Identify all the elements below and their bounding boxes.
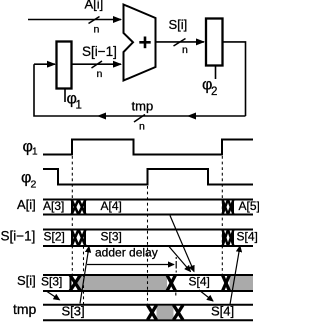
svg-text:n: n (182, 44, 188, 56)
crossing S[i] settles to S[4] (167, 275, 176, 291)
register REG1 (phi1 latch) (57, 42, 72, 89)
svg-text:S[i]: S[i] (169, 17, 188, 32)
wire A[i] input (28, 19, 121, 21)
svg-text:n: n (97, 68, 103, 80)
arrow S[3] to S[4] (169, 247, 191, 272)
bus slash tmp (134, 115, 145, 123)
dashed line at phi1 rise t1 (71, 156, 73, 274)
crossing S[3]-S[4] (223, 230, 234, 247)
svg-text:n: n (139, 121, 145, 133)
bus row S[i] rails and gray regions (43, 275, 253, 291)
wire clock stub phi2 (215, 66, 217, 80)
arrow A[4] to S[4] (170, 216, 194, 272)
crossing S[i] invalid after phi1 rise t2 (223, 275, 230, 291)
svg-text:tmp: tmp (132, 99, 154, 114)
svg-text:S[3]: S[3] (101, 230, 122, 244)
bus row S[i-1] rails (43, 230, 253, 247)
crossing tmp settles S[4] (174, 305, 184, 320)
wire clock stub phi1 (64, 89, 66, 103)
svg-text:n: n (94, 24, 100, 36)
svg-text:tmp: tmp (13, 301, 37, 317)
waveform phi2 (43, 169, 253, 185)
svg-text:S[3]: S[3] (41, 275, 62, 289)
bus row tmp rails and gray region (43, 305, 253, 321)
bus slash A[i] (89, 17, 100, 24)
dashed line at phi2 rise (147, 186, 149, 304)
svg-text:2: 2 (211, 86, 217, 98)
annotation adder delay measure arrow (87, 264, 174, 266)
svg-text:S[4]: S[4] (189, 275, 210, 289)
wire adder output S[i] (156, 41, 204, 43)
arrow tmp S[3] to S[i-1] (80, 247, 89, 304)
waveform phi1 (43, 140, 253, 155)
svg-text:adder delay: adder delay (95, 246, 158, 260)
svg-text:S[3]: S[3] (62, 304, 85, 319)
svg-text:A[i]: A[i] (17, 197, 36, 212)
svg-text:S[i]: S[i] (17, 273, 36, 288)
svg-text:A[5]: A[5] (239, 199, 260, 213)
register REG2 (phi2 latch) (206, 19, 223, 66)
crossing A[3]-A[4] (72, 200, 86, 215)
bus slash S[i-1] (92, 61, 103, 68)
svg-text:2: 2 (31, 179, 37, 191)
bus slash S[i] (174, 39, 186, 47)
crossing S[2]-S[3] (72, 230, 86, 247)
wire tmp feedback (left segment and riser) (34, 64, 98, 116)
adder U1 (124, 5, 156, 81)
dashed line at phi1 rise t2 (221, 156, 223, 274)
svg-text:S[2]: S[2] (44, 230, 65, 244)
bus row A[i] rails (43, 200, 253, 215)
wire tmp feedback (middle segment) (98, 115, 188, 117)
wire tmp feedback (right segment) (188, 115, 246, 117)
crossing A[4]-A[5] (223, 200, 234, 215)
arrow S[i] S[3] to tmp (47, 292, 60, 300)
svg-text:S[i−1]: S[i−1] (82, 44, 117, 59)
dashed line at inputs stable (83, 246, 85, 304)
svg-text:1: 1 (76, 100, 82, 112)
svg-text:S[4]: S[4] (211, 304, 234, 319)
arrow S[i] S[4] to tmp (199, 290, 213, 301)
svg-text:S[4]: S[4] (237, 230, 258, 244)
svg-text:1: 1 (32, 147, 38, 158)
wire S[i-1] register1 to adder (72, 63, 122, 65)
wire register2 output to right rail (223, 42, 246, 116)
svg-text:A[4]: A[4] (101, 199, 122, 213)
crossing tmp follows S[i] (148, 305, 157, 320)
svg-text:S[i−1]: S[i−1] (1, 229, 36, 244)
wire input to register1 (34, 63, 55, 65)
crossing S[i] old-new (70, 275, 81, 291)
svg-text:A[3]: A[3] (43, 199, 64, 213)
arrow tmp S[4] to S[i-1] (230, 246, 240, 305)
svg-text:A[i]: A[i] (85, 0, 104, 12)
